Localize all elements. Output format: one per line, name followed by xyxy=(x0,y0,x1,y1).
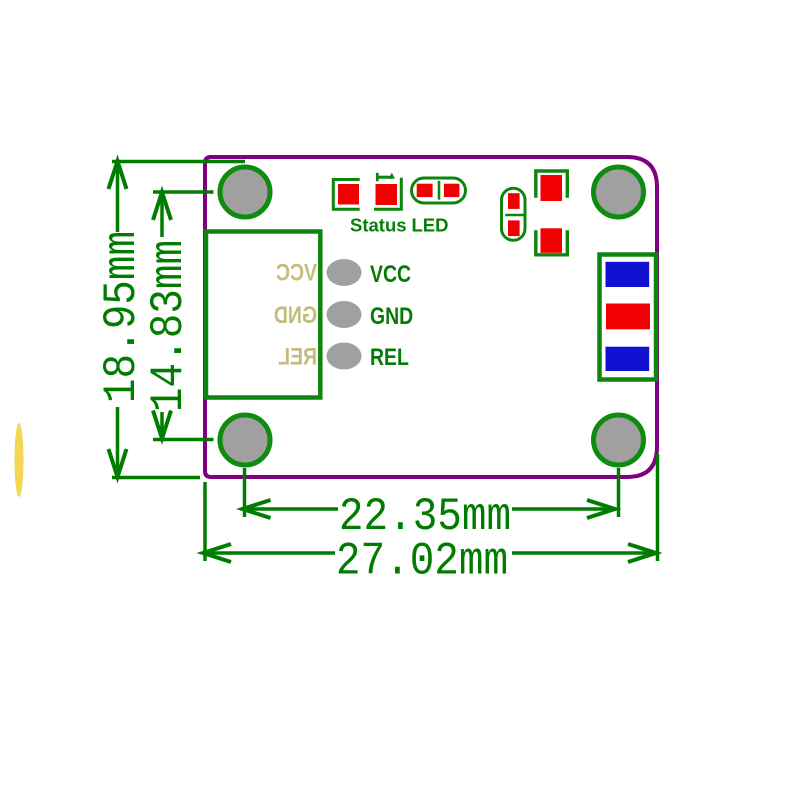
mounting hole bottom-left xyxy=(220,415,270,465)
dim 27.02mm line xyxy=(203,551,335,555)
LED stadium divider xyxy=(438,181,441,200)
dim 27.02mm extension right xyxy=(656,454,660,561)
LED stadium pad left xyxy=(417,184,433,197)
svg-text:GND: GND xyxy=(370,302,413,329)
dim 14.83mm arrow down xyxy=(153,411,171,439)
svg-text:GND: GND xyxy=(274,301,317,328)
dim 22.35mm extension right xyxy=(617,468,621,517)
dim 14.83mm arrow up xyxy=(153,192,171,220)
PCB board outline xyxy=(205,157,657,477)
diode bracket top xyxy=(536,171,568,198)
diode pad bottom red xyxy=(541,228,563,253)
svg-text:VCC: VCC xyxy=(370,260,411,287)
svg-text:Status: Status xyxy=(350,215,407,236)
dim 27.02mm extension left xyxy=(203,482,207,561)
dim 18.95mm arrow down xyxy=(109,449,127,477)
dim 14.83mm line xyxy=(160,192,164,237)
resistor pad top xyxy=(508,193,520,209)
terminal pad blue top xyxy=(606,262,650,287)
terminal block outline xyxy=(600,255,657,380)
dim 22.35mm arrow right xyxy=(587,500,615,518)
dim 18.95mm arrow up xyxy=(109,161,127,189)
svg-text:VCC: VCC xyxy=(276,259,317,286)
pin-1 marker xyxy=(376,173,379,182)
pad GND xyxy=(327,301,362,328)
pad VCC xyxy=(327,259,362,286)
pad REL xyxy=(327,343,362,370)
svg-text:27.02mm: 27.02mm xyxy=(336,537,508,589)
svg-text:14.83mm: 14.83mm xyxy=(144,240,196,412)
svg-text:REL: REL xyxy=(370,343,409,370)
resistor pad bottom xyxy=(508,220,520,236)
LED D2 pad red xyxy=(376,184,398,205)
dim 18.95mm line xyxy=(116,161,120,232)
dim 18.95mm extension bottom xyxy=(112,476,200,480)
dim 18.95mm extension top xyxy=(112,160,245,164)
LED stadium pad right xyxy=(444,184,460,197)
dim 14.83mm extension bottom xyxy=(153,438,214,442)
LED D1 pad red xyxy=(338,184,359,205)
diode bracket bottom xyxy=(536,230,568,255)
relay outline K1 xyxy=(206,232,320,398)
resistor divider xyxy=(505,214,524,217)
mounting hole bottom-right xyxy=(594,415,644,465)
svg-text:LED: LED xyxy=(412,215,449,236)
svg-text:18.95mm: 18.95mm xyxy=(97,231,149,403)
terminal pad red middle xyxy=(606,304,650,330)
mounting hole top-right xyxy=(594,167,644,217)
yellow glare artifact xyxy=(15,423,24,497)
LED D2 bracket xyxy=(374,178,401,210)
resistor stadium vertical xyxy=(502,188,526,240)
mounting hole top-left xyxy=(220,167,270,217)
dim 14.83mm extension top xyxy=(153,190,214,194)
diode pad top red xyxy=(541,175,563,201)
dim 22.35mm extension left xyxy=(243,468,247,517)
dim 22.35mm arrow left xyxy=(243,500,271,518)
LED footprint stadium xyxy=(412,178,466,203)
svg-text:REL: REL xyxy=(278,343,317,370)
dim 27.02mm arrow left xyxy=(203,544,231,562)
dim 22.35mm line xyxy=(243,507,339,511)
terminal pad blue bottom xyxy=(606,347,650,371)
dim 27.02mm arrow right xyxy=(628,544,656,562)
LED D1 bracket xyxy=(333,180,359,210)
